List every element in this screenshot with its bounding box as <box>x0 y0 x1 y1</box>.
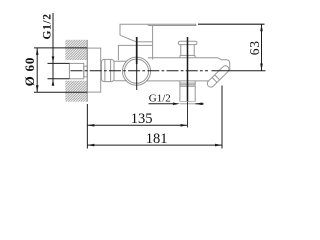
svg-text:135: 135 <box>131 111 153 127</box>
svg-text:Ø 60: Ø 60 <box>22 57 37 87</box>
svg-text:63: 63 <box>247 40 262 55</box>
svg-text:G1/2: G1/2 <box>42 13 54 39</box>
svg-text:G1/2: G1/2 <box>149 92 171 104</box>
svg-text:181: 181 <box>146 131 168 147</box>
